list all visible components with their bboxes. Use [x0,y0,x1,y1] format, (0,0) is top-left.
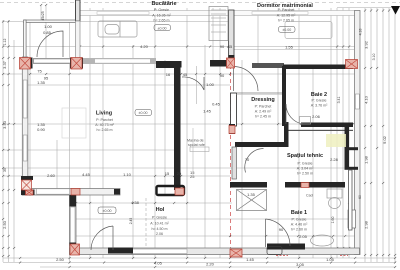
svg-text:A: 4.46 m²: A: 4.46 m² [291,223,308,227]
svg-text:0.90: 0.90 [37,127,46,132]
svg-text:0.45: 0.45 [212,102,221,107]
left exterior wall of living [22,57,28,195]
top-right horizontal chain [337,7,396,9]
door baie1 [266,219,291,247]
pier baie1 north wall [301,183,309,188]
exterior walls: thin double lines, light fill [22,11,360,255]
right margin vertical dimension chains [336,8,338,258]
dressing west wall upper [231,93,237,126]
svg-text:A: 2.49 m²: A: 2.49 m² [255,110,272,114]
svg-text:2.45: 2.45 [129,218,133,225]
svg-text:1.60: 1.60 [331,217,335,224]
door sp tehnic [245,149,264,173]
baie2 north wall [283,65,353,70]
svg-text:3.37: 3.37 [2,60,7,69]
door bedroom to dressing corridor [234,67,259,92]
right exterior wall full height [355,11,361,255]
svg-text:Living: Living [96,111,112,117]
red dashed axis line at x=230 [146,58,231,258]
threshold rect bottom [267,247,282,255]
svg-text:4.38: 4.38 [131,200,140,205]
kitchen south wall right part [210,60,228,67]
room label Dressing [251,97,275,119]
window lighter inserts on exterior walls [23,12,359,254]
doors [37,31,303,250]
toilet baie1 [327,189,342,198]
svg-text:45x25: 45x25 [41,11,45,20]
shower baie1 [237,190,267,211]
sp tehnic west wall [232,147,237,179]
svg-text:3.41: 3.41 [337,97,341,104]
living small marks [62,108,86,138]
svg-text:1.35: 1.35 [247,192,256,197]
svg-text:2.06: 2.06 [312,114,321,119]
svg-text:A: 10.41 m²: A: 10.41 m² [150,221,169,225]
svg-text:4.18: 4.18 [359,29,363,36]
left margin ticks [2,20,15,257]
svg-text:75: 75 [37,69,42,74]
room label Hol [150,207,169,236]
bedroom south wall / dressing north [252,63,284,68]
svg-text:Bucătărie: Bucătărie [151,1,176,7]
svg-text:15: 15 [165,171,170,176]
top exterior wall [79,11,355,16]
svg-text:P: Parchet: P: Parchet [255,105,272,109]
svg-text:3.05: 3.05 [296,262,305,267]
living south wall [22,189,120,196]
room label Dormitor matrimonial [257,3,313,32]
living south wall end cap [114,189,120,195]
svg-text:1.35: 1.35 [37,80,46,85]
pier hol west bottom [70,244,80,255]
svg-text:1.45: 1.45 [203,109,212,114]
svg-text:±0.00: ±0.00 [139,111,148,115]
svg-text:25: 25 [190,174,195,179]
pier leg bottom red [175,188,184,195]
svg-text:h= 2.65 m: h= 2.65 m [153,18,169,22]
svg-text:A: 3.04 m²: A: 3.04 m² [297,167,314,171]
bottom exterior wall [70,248,360,255]
svg-text:Cad: Cad [306,194,313,198]
right margin ticks [336,9,396,256]
svg-text:3.92: 3.92 [364,40,369,49]
bottom wall darker mid segment [108,248,133,254]
bedroom west wall [229,10,235,58]
entrance door hol [91,226,113,250]
svg-text:20: 20 [177,171,182,176]
pier living south 2 [71,189,80,196]
kitchen wardrobe column [209,7,228,41]
sink oval baie1 [311,235,334,246]
svg-text:2.98: 2.98 [364,220,369,229]
baie2 south wall [301,123,353,128]
bottom margin ticks [19,257,396,259]
dressing south wall [235,142,288,147]
svg-text:4.20: 4.20 [140,44,149,49]
baie1 north wall [230,182,267,188]
svg-text:P: Gresie: P: Gresie [292,218,307,222]
room label Baie 1 [291,210,308,232]
svg-text:4.10: 4.10 [364,95,369,104]
dashed property line top [0,2,400,4]
living SW corner jog [21,176,33,180]
svg-text:A: 40.73 m²: A: 40.73 m² [95,123,114,127]
svg-text:±0.00: ±0.00 [282,28,291,32]
bedroom bed rug [285,22,332,39]
pier bedroom right [346,60,358,69]
yellow highlight zone [326,134,346,147]
room label Living [95,111,114,132]
svg-text:3.10: 3.10 [372,54,376,61]
svg-text:A: 3.76 m²: A: 3.76 m² [311,104,328,108]
baie2 west wall [282,66,286,126]
svg-text:±0.00: ±0.00 [158,26,167,30]
interior chain ticks [23,4,77,23]
jog between dressing-bottom and baie2-bottom [284,122,289,147]
svg-text:1.00: 1.00 [206,82,215,87]
svg-text:1.55: 1.55 [285,45,294,50]
svg-text:P: Gresie: P: Gresie [312,99,327,103]
room label Baie 2 [311,92,328,108]
svg-text:2.60: 2.60 [47,173,56,178]
red outlined pier on west wall [22,180,32,190]
svg-text:h= 2.45 m: h= 2.45 m [255,115,271,119]
door kitchen to corridor [182,77,204,90]
room label Spatiul tehnic [287,153,323,176]
svg-text:h= 2.65 m: h= 2.65 m [96,128,112,132]
svg-text:1.05: 1.05 [326,257,335,262]
svg-text:4.05: 4.05 [154,261,163,266]
svg-text:60: 60 [358,195,362,199]
svg-text:Hol: Hol [156,207,165,213]
pier bottom wall big [230,249,242,257]
svg-text:90: 90 [220,44,225,49]
svg-text:45: 45 [228,44,233,49]
kitchen south wall L with leg [156,61,182,190]
svg-text:4.45: 4.45 [82,172,91,177]
pier dressing west [229,126,235,134]
svg-text:h= 2.50 m: h= 2.50 m [297,172,313,176]
baie1 south dark segment [267,244,305,250]
svg-text:P: Gresie: P: Gresie [298,162,313,166]
left porch wall [24,20,27,58]
dark interior walls [20,10,359,254]
pier kitchen/bedroom [227,58,235,68]
svg-text:3.50: 3.50 [2,120,7,129]
svg-text:0.85: 0.85 [43,30,52,35]
svg-text:2.05: 2.05 [299,234,308,239]
svg-text:Baie 2: Baie 2 [311,92,327,98]
svg-text:45: 45 [183,72,188,77]
svg-text:A: 12.95 m²: A: 12.95 m² [277,14,296,18]
black cap rect at bottom of leg [157,186,185,195]
svg-text:2.28: 2.28 [330,157,339,162]
dressing north opening line [237,93,283,95]
svg-text:h= 2.65 m: h= 2.65 m [278,19,294,23]
porch top wall [24,20,76,22]
red piers [20,58,358,258]
svg-text:1.10: 1.10 [123,172,132,177]
dimension chain line left-2 [8,20,10,262]
north arrow triangle [391,6,400,15]
corridor appliance annotation [187,139,209,180]
svg-text:90: 90 [279,227,284,232]
pier living bottom-left small [26,190,34,195]
kitchen west wall x75-80 y0-58 [76,0,81,58]
interior horizontal reference lines [3,21,230,23]
svg-text:h= 4.50 m: h= 4.50 m [151,227,167,231]
svg-text:9.02: 9.02 [382,135,387,144]
dimension chain line left-3 [13,40,15,262]
svg-text:2.06: 2.06 [156,232,163,236]
svg-text:70: 70 [245,157,250,162]
svg-text:1.45: 1.45 [246,257,255,262]
sp tehnic east wall + corner [345,126,350,168]
elevation box living [135,110,152,116]
hol west wall bottom above pier [70,243,77,246]
svg-text:16: 16 [166,72,171,77]
svg-text:2.50: 2.50 [56,257,65,262]
svg-text:P: Parchet: P: Parchet [278,8,295,12]
svg-text:P: Parchet: P: Parchet [96,118,113,122]
hol west exterior wall [70,195,77,254]
hol west wall top dark segment [70,195,77,207]
pier porch right [71,58,82,70]
door baie2 [286,104,303,124]
svg-text:h= 2.60 m: h= 2.60 m [291,228,307,232]
dimension texts scattered [37,24,339,267]
wall between porch and living, y58-64 [20,58,33,69]
fixtures [62,7,342,255]
svg-text:2.50: 2.50 [2,220,7,229]
svg-text:±0.00: ±0.00 [103,209,112,213]
room label Bucatarie [151,1,176,31]
svg-text:spalat rufe: spalat rufe [188,143,205,147]
red marks bottom right [276,255,348,257]
svg-text:Dressing: Dressing [251,97,275,103]
svg-text:35: 35 [3,168,7,172]
kitchen counter with sink [98,21,137,37]
svg-text:P: Gresie: P: Gresie [154,8,169,12]
bottom margin horizontal dimension chains [3,257,396,259]
svg-text:A: 16.36 m²: A: 16.36 m² [152,13,171,17]
svg-text:Baie 1: Baie 1 [291,210,307,216]
svg-text:1.98: 1.98 [364,155,369,164]
svg-text:P: Gresie: P: Gresie [152,215,167,219]
svg-text:Spațiul tehnic: Spațiul tehnic [287,153,323,159]
interior vertical reference lines [29,20,31,196]
corridor vertical line [192,128,194,175]
baie1 east recess wall [349,170,353,230]
svg-text:2.20: 2.20 [206,262,215,267]
elevation box hol [98,207,116,214]
rotated dim texts margins [2,11,387,229]
dimension chain line left-1 [2,20,4,262]
pier living top-left [20,58,31,70]
svg-text:90: 90 [220,73,225,78]
porch entry door arc [37,31,63,57]
svg-text:1.00: 1.00 [44,24,53,29]
svg-text:1.12: 1.12 [3,39,7,46]
